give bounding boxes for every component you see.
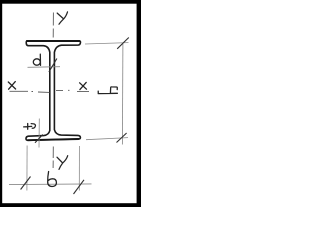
extension line top (h) [85,43,129,44]
flange outer edges (thicker) [27,41,80,140]
label b [48,172,57,187]
dimension line d [28,66,61,69]
extension line bottom (h) [86,138,128,140]
tick b left [21,177,31,190]
vertical centerline Y bottom [52,147,54,169]
label x right [80,82,87,89]
label h (rotated) [98,87,117,94]
tick h top [117,38,129,49]
tick on d at web [49,59,57,73]
frame border [0,0,141,4]
extension line b left [26,146,28,191]
extension line b right [78,146,80,191]
label t [24,124,36,130]
tick t [35,135,43,143]
x axis dash-dot line [10,90,90,92]
tick b right [74,180,85,194]
dimension line h [121,44,124,145]
dimension line b [9,183,92,186]
vertical centerline Y top [52,13,54,38]
I-beam cross-section outline [26,41,80,140]
label x left [8,82,15,90]
tick h bottom [117,133,127,143]
label d [33,54,40,65]
label Y bottom [57,156,68,170]
t measurement vertical line [38,119,40,148]
label Y top [57,12,67,24]
